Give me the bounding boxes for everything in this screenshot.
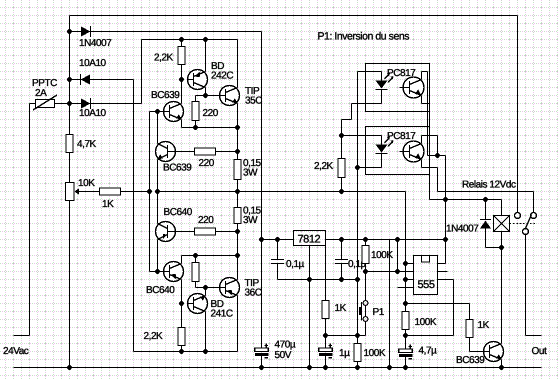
resistor 100K R1	[362, 246, 369, 264]
wire opto1 emitter lead	[421, 96, 423, 104]
wire P1 bottom lead	[365, 322, 367, 336]
svg-text:0,1µ: 0,1µ	[286, 259, 305, 270]
junction (501.5,367.5)	[499, 365, 504, 370]
junction (357.5,279.5)	[355, 277, 360, 282]
wire 100K bottom lead	[357, 362, 359, 368]
junction (485.5,199.5)	[483, 197, 488, 202]
wire negative rail x=133.5	[133, 80, 135, 352]
junction (309.5,279.5)	[307, 277, 312, 282]
wire BD241C emitter node y=287.5	[196, 287, 222, 289]
relay contact arm	[525, 215, 532, 230]
junction (157.5,191.5)	[155, 189, 160, 194]
junction (405.5,335.5)	[403, 333, 408, 338]
wire BC639-2 base through 220 y=151.5	[176, 151, 238, 153]
svg-text:7812: 7812	[298, 234, 321, 246]
junction (69.5,103.5)	[67, 101, 72, 106]
junction (237.5,127.5)	[235, 125, 240, 130]
wire timing node jog y=335.5	[406, 335, 454, 337]
wire output stage upper rail y=39.5	[142, 39, 238, 41]
wire 100K / P1 column x=365.5 upper	[365, 240, 367, 301]
resistor 2,2K lower	[178, 328, 185, 346]
junction (365.5,239.5)	[363, 237, 368, 242]
svg-text:Relais 12Vdc: Relais 12Vdc	[462, 180, 516, 191]
wire BC640-2 collector drop	[181, 280, 183, 304]
wire 555 pin stub y=279.5	[406, 279, 414, 281]
svg-text:1N4007: 1N4007	[79, 38, 112, 49]
wire opto2 collector lead	[421, 136, 423, 144]
svg-text:3W: 3W	[243, 215, 258, 226]
wire P1 middle link	[365, 306, 367, 317]
transistor BC640 Q6 (PNP)	[164, 262, 184, 282]
junction (437.5,155.5)	[435, 153, 440, 158]
junction (69.5,79.5)	[67, 77, 72, 82]
resistor 1K input	[100, 188, 121, 195]
capacitor 4,7u C5	[399, 345, 413, 359]
wire 470u negative lead	[261, 356, 263, 368]
wire relay contact feed y=191.5	[438, 191, 534, 193]
transistor BC639 Q3 (NPN)	[164, 102, 184, 122]
svg-text:10K: 10K	[78, 178, 95, 189]
wire lower emitter node y=255.5	[182, 255, 238, 257]
wire BD242C emitter node y=95.5	[196, 95, 222, 97]
svg-text:100K: 100K	[364, 348, 386, 359]
junction (309.5,367.5)	[307, 365, 312, 370]
wire 555 pin stub y=287.5	[398, 287, 414, 289]
wire bottom common rail y=367.5	[14, 367, 542, 369]
wire 7812 ground lead x=309.5	[309, 246, 311, 368]
wire BD241C top lead	[205, 288, 207, 296]
wire +12V riser x=445.5	[445, 156, 447, 264]
wire 0,1u input cap top lead	[277, 240, 279, 260]
wire flyback diode anode lead	[485, 229, 487, 248]
wire TIP36C emitter to lower rail	[237, 296, 239, 352]
wire relay coil to BC639 collector	[501, 232, 503, 344]
wire BD242C top lead	[205, 40, 207, 72]
junction (341.5,135.5)	[339, 133, 344, 138]
wire LED1 cathode jog y=103.5	[352, 103, 382, 105]
svg-text:10A10: 10A10	[79, 58, 107, 69]
wire BC640-1 base through 220 y=231.5	[176, 231, 238, 233]
svg-text:3W: 3W	[243, 168, 258, 179]
svg-text:220: 220	[199, 158, 215, 169]
svg-text:BC639: BC639	[456, 355, 485, 366]
wire 2,2K lower bottom lead	[181, 346, 183, 352]
wire BC639 emitter to rail	[501, 360, 503, 368]
svg-text:220: 220	[198, 215, 214, 226]
wire relay contact drop x=533.5	[533, 192, 535, 213]
junction (205.5,95.5)	[203, 93, 208, 98]
wire 555 ground column x=389.5	[389, 240, 391, 368]
junction (205.5,351.5)	[203, 349, 208, 354]
resistor 100K R4	[402, 312, 409, 330]
wire flyback diode jog y=247.5	[486, 247, 502, 249]
wire relay common drop x=525.5	[525, 235, 527, 336]
phototransistor inside PC817 U2	[400, 77, 425, 98]
junction (445.5,239.5)	[443, 237, 448, 242]
relay contact fixed B	[531, 213, 537, 219]
wire 555 pin stub y=263.5	[406, 263, 414, 265]
junction (181.5,39.5)	[179, 37, 184, 42]
wire fuse branch y=103.5	[30, 103, 142, 105]
wire 555 output pin jog	[438, 279, 454, 281]
resistor 220 Q4 base	[195, 148, 216, 155]
wire opto1 emitter jog	[422, 103, 430, 105]
wire 1u negative lead	[325, 356, 327, 368]
capacitor 1u C4	[319, 344, 333, 358]
LED inside PC817 U3	[376, 137, 394, 154]
wire positive rail riser x=141.5	[141, 40, 143, 104]
wire BC640-1 collector drop	[157, 240, 159, 272]
junction (405.5,279.5)	[403, 277, 408, 282]
svg-text:BC640: BC640	[146, 285, 175, 296]
wire opto2 emitter jog	[422, 167, 438, 169]
junction (405.5,367.5)	[403, 365, 408, 370]
wire relay coil top lead	[501, 200, 503, 216]
transistor TIP36C Q8 (PNP)	[220, 278, 240, 298]
wire LED2 anode jog y=135.5	[342, 135, 382, 137]
voltage regulator 7812 U4	[294, 231, 326, 246]
wire 555 Vcc pin jog	[438, 263, 446, 265]
wire 2,2K / BC639 collector column upper	[181, 40, 183, 104]
junction (195.5,127.5)	[193, 125, 198, 130]
wire opto return column x=357.5	[357, 72, 359, 344]
diode 1N4007 D4 flyback	[480, 220, 491, 229]
wire BC640 base jog y=271.5	[150, 271, 164, 273]
wire 555 right pin stub y=271.5	[438, 271, 448, 273]
svg-text:BC639: BC639	[151, 90, 180, 101]
resistor 1K R5	[466, 320, 473, 338]
junction (237.5,191.5)	[235, 189, 240, 194]
svg-text:P1: P1	[373, 307, 385, 318]
junction (205.5,287.5)	[203, 285, 208, 290]
transistor TIP35C Q2 (NPN)	[220, 86, 240, 106]
wire opto feed 2,2K column x=341.5	[341, 120, 343, 192]
junction (237.5,255.5)	[235, 253, 240, 258]
wire 1K column x=469.5	[469, 304, 471, 352]
svg-text:Out: Out	[532, 346, 547, 357]
wire BD241C bottom lead	[205, 312, 207, 352]
diode 10A10 D3	[81, 98, 91, 109]
transistor BD241C Q7 (NPN)	[188, 294, 208, 314]
svg-text:1µ: 1µ	[339, 348, 350, 359]
wire BC639 emitter drop	[181, 120, 183, 128]
resistor 2,2K upper	[178, 47, 185, 65]
junction (325.5,335.5)	[323, 333, 328, 338]
junction (237.5,231.5)	[235, 229, 240, 234]
LED inside PC817 U2	[376, 73, 394, 90]
svg-text:241C: 241C	[211, 309, 233, 320]
wire top rail from input to relay contact	[70, 15, 518, 17]
junction (397.5,271.5)	[395, 269, 400, 274]
junction (195.5,255.5)	[193, 253, 198, 258]
wire collector bus jog y=155.5	[428, 155, 446, 157]
wire relay drive y=199.5	[430, 199, 502, 201]
wire opto2 emitter drop	[437, 168, 439, 192]
junction (365.5,271.5)	[363, 269, 368, 274]
junction (397.5,239.5)	[395, 237, 400, 242]
wire +12V rail y=239.5	[326, 239, 446, 241]
wire LED1 anode lead	[381, 72, 383, 81]
wire 10A10 upper branch y=79.5	[70, 79, 134, 81]
wire 12V divider column x=325.5	[325, 240, 327, 349]
junction (261.5,367.5)	[259, 365, 264, 370]
wire BC639 base jog y=111.5	[150, 111, 164, 113]
junction (389.5,367.5)	[387, 365, 392, 370]
wire threshold node y=303.5	[406, 303, 470, 305]
resistor 220 Q5 base	[195, 228, 216, 235]
wire 0,1u input cap bottom lead	[277, 264, 279, 280]
optocoupler PC817 U3 box	[366, 127, 430, 175]
svg-text:50V: 50V	[275, 350, 292, 361]
resistor 1K R3	[322, 301, 329, 319]
wire 24Vac feed x=29.5	[29, 104, 31, 336]
junction (181.5,351.5)	[179, 349, 184, 354]
wire LED1 cathode riser x=351.5	[351, 104, 353, 120]
wire LED2 cathode jog y=167.5	[358, 167, 382, 169]
svg-text:100K: 100K	[371, 250, 393, 261]
wire 2,2K lower top lead	[181, 304, 183, 328]
wire BC639-2 collector riser	[157, 112, 159, 144]
wire opto collector bus x=427.5	[427, 72, 429, 156]
svg-text:1K: 1K	[478, 320, 490, 331]
svg-text:2A: 2A	[35, 88, 47, 99]
wire timing column x=405.5	[405, 192, 407, 350]
svg-text:100K: 100K	[415, 317, 437, 328]
wire opto2 collector jog	[422, 135, 438, 137]
wire ground bus y=279.5	[278, 279, 358, 281]
junction (277.5,239.5)	[275, 237, 280, 242]
pushbutton P1	[359, 301, 368, 322]
phototransistor inside PC817 U3	[400, 141, 425, 162]
wire opto1 emitter drop x=429.5	[429, 104, 431, 200]
junction (405.5,303.5)	[403, 301, 408, 306]
relay actuation dotted link	[510, 223, 536, 225]
wire 24Vac terminal upper lead	[14, 335, 30, 337]
junction (445.5,199.5)	[443, 197, 448, 202]
junction (325.5,367.5)	[323, 365, 328, 370]
wire 220 bottom lead	[195, 121, 197, 128]
relay contact common	[523, 229, 529, 235]
wire 555 output drop x=453.5	[453, 280, 455, 336]
wire TIP35C collector drop	[237, 40, 239, 88]
wire 220 top lead	[195, 96, 197, 102]
svg-text:36C: 36C	[245, 288, 262, 299]
wire BD242C bottom lead	[205, 88, 207, 96]
wire emitter resistor node y=127.5	[182, 127, 238, 129]
transistor BC640 Q5 (PNP, mirrored)	[156, 222, 176, 242]
wire relay fixed contact drop x=517.5	[517, 16, 519, 213]
svg-text:555: 555	[418, 279, 435, 291]
resistor 4,7K	[66, 135, 73, 153]
wire P1 to 1u node y=335.5	[326, 335, 366, 337]
wire left vertical bus x=69.5	[69, 16, 71, 368]
wire output stage lower rail y=351.5	[134, 351, 238, 353]
resistor 0,15 3W lower	[234, 208, 241, 224]
svg-text:35C: 35C	[245, 96, 262, 107]
wire 555 pin feed x=397.5	[397, 240, 399, 272]
junction (237.5,151.5)	[235, 149, 240, 154]
svg-text:4,7µ: 4,7µ	[419, 346, 438, 357]
junction (341.5,191.5)	[339, 189, 344, 194]
wire emitter column x=157.5	[157, 160, 159, 224]
svg-text:1K: 1K	[102, 199, 114, 210]
svg-text:PC817: PC817	[387, 131, 416, 142]
svg-text:24Vac: 24Vac	[3, 346, 29, 357]
wire opto2 collector drop	[437, 136, 439, 156]
wire 7812 input y=239.5	[262, 239, 294, 241]
wire rectified feed x=261.5 to 7812 and 470u	[261, 32, 263, 349]
diode 1N4007 D1	[81, 26, 91, 37]
wire pot wiper to 1K input y=191.5	[77, 191, 150, 193]
svg-text:470µ: 470µ	[275, 340, 296, 351]
junction (405.5,263.5)	[403, 261, 408, 266]
wire LED1 cathode lead	[381, 90, 383, 104]
junction (157.5,271.5)	[155, 269, 160, 274]
wire opto1 collector lead	[421, 72, 423, 80]
svg-text:242C: 242C	[211, 71, 233, 82]
transistor BC639 Q4 (NPN, mirrored)	[156, 142, 176, 162]
wire current sense column x=237.5 upper	[237, 104, 239, 280]
wire BC640-2 emitter lead	[181, 256, 183, 264]
wire LED chain jog y=119.5	[342, 119, 352, 121]
resistor 100K R2	[354, 344, 361, 362]
wire 0,1u output cap top lead	[341, 240, 343, 260]
wire 555 left pin y=271.5	[366, 271, 414, 273]
relay contact fixed A	[515, 213, 521, 219]
wire 4,7u negative lead	[405, 357, 407, 368]
junction (69.5,31.5)	[67, 29, 72, 34]
junction (357.5,367.5)	[355, 365, 360, 370]
potentiometer 10K	[66, 183, 79, 201]
junction (341.5,279.5)	[339, 277, 344, 282]
capacitor 470u 50V C3	[255, 344, 269, 358]
junction (501.5,247.5)	[499, 245, 504, 250]
fuse PPTC 2A	[33, 95, 57, 110]
timer IC 555 U5	[414, 256, 438, 295]
wire LED1 anode jog y=71.5	[358, 71, 382, 73]
capacitor 0,1u C2	[335, 260, 348, 264]
junction (157.5,111.5)	[155, 109, 160, 114]
wire output node y=191.5	[158, 191, 406, 193]
diode 10A10 D2	[81, 74, 91, 85]
junction (69.5,367.5)	[67, 365, 72, 370]
wire opto1 collector jog	[422, 71, 428, 73]
wire 1N4007 branch y=31.5	[70, 31, 262, 33]
wire 220 lower top lead	[195, 256, 197, 263]
wire opto2 emitter lead	[421, 160, 423, 168]
wire 220 lower bottom lead	[195, 282, 197, 288]
junction (357.5,167.5)	[355, 165, 360, 170]
svg-text:10A10: 10A10	[79, 108, 107, 119]
wire Out terminal upper lead	[526, 335, 542, 337]
junction (341.5,239.5)	[339, 237, 344, 242]
wire input bus x=149.5	[149, 112, 151, 272]
transistor BD242C Q1 (PNP)	[188, 70, 208, 90]
capacitor 0,1u C1	[271, 260, 284, 264]
svg-text:2,2K: 2,2K	[144, 331, 164, 342]
wire 0,1u output cap bottom lead	[341, 264, 343, 280]
junction (261.5,239.5)	[259, 237, 264, 242]
svg-text:BC639: BC639	[163, 163, 192, 174]
transistor BC639 Q9 (NPN)	[484, 342, 504, 362]
svg-text:4,7K: 4,7K	[77, 139, 97, 150]
optocoupler PC817 U2 box	[366, 64, 430, 112]
junction (181.5,303.5)	[179, 301, 184, 306]
wire LED2 anode lead	[381, 136, 383, 145]
svg-text:1N4007: 1N4007	[446, 224, 479, 235]
resistor 220 Q1 emitter	[192, 102, 199, 121]
junction (357.5,335.5)	[355, 333, 360, 338]
svg-text:2,2K: 2,2K	[154, 53, 174, 64]
svg-text:BC640: BC640	[164, 207, 193, 218]
resistor 2,2K opto feed	[338, 159, 345, 178]
svg-text:220: 220	[203, 108, 219, 119]
relay coil K1	[494, 216, 510, 232]
wire BC639 base lead y=351.5	[470, 351, 484, 353]
svg-text:1K: 1K	[335, 303, 347, 314]
junction (205.5,39.5)	[203, 37, 208, 42]
resistor 0,15 3W upper	[234, 160, 241, 180]
svg-text:P1: Inversion du sens: P1: Inversion du sens	[318, 31, 410, 43]
resistor 220 Q7 emitter	[192, 263, 199, 282]
junction (181.5,79.5)	[179, 77, 184, 82]
junction (149.5,191.5)	[147, 189, 152, 194]
svg-text:2,2K: 2,2K	[314, 161, 334, 172]
wire LED2 cathode lead	[381, 153, 383, 168]
wire flyback diode cathode lead	[485, 200, 487, 220]
